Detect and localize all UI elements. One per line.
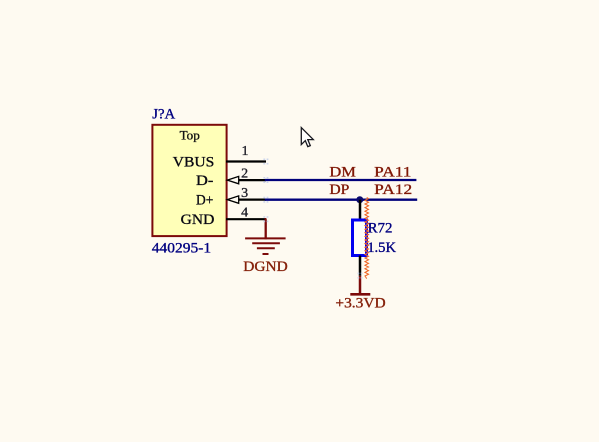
power port +3.3VD stem <box>359 276 362 295</box>
ground bar 1 <box>245 237 286 239</box>
ground bar 3 <box>257 247 275 249</box>
pin 2 stub <box>239 179 266 181</box>
pin 2 arrow <box>227 176 238 183</box>
svg-text:VBUS: VBUS <box>173 154 215 170</box>
svg-text:440295-1: 440295-1 <box>152 241 211 257</box>
hotspot marker resistor R72 pin 2 end <box>358 273 363 279</box>
svg-text:PA12: PA12 <box>374 182 412 198</box>
svg-text:Top: Top <box>180 128 200 143</box>
svg-text:GND: GND <box>181 212 215 228</box>
svg-text:D-: D- <box>196 173 213 189</box>
wire net DP <box>265 199 417 201</box>
ground bar 2 <box>252 242 280 244</box>
svg-text:R72: R72 <box>368 221 393 237</box>
pin 3 stub <box>239 199 266 201</box>
hotspot marker pin 1 end <box>263 159 268 165</box>
svg-text:PA11: PA11 <box>374 164 411 180</box>
pin 4 stub <box>226 218 266 220</box>
junction dot <box>356 196 363 203</box>
power port +3.3VD bar <box>350 293 370 296</box>
pin 1 stub <box>226 160 266 162</box>
pin 3 arrow <box>227 196 238 203</box>
wire net DM <box>265 179 417 181</box>
svg-text:J?A: J?A <box>152 107 175 123</box>
ground stem wire <box>265 219 268 239</box>
connector J?A body <box>152 125 226 236</box>
svg-text:DM: DM <box>329 164 356 180</box>
hotspot marker pin 3 end <box>263 197 268 203</box>
svg-text:DGND: DGND <box>243 259 288 275</box>
svg-text:1.5K: 1.5K <box>367 240 396 256</box>
hotspot marker pin 4 end <box>263 216 268 222</box>
error squiggle marker <box>365 197 369 278</box>
mouse cursor <box>301 128 313 147</box>
svg-text:1: 1 <box>242 144 249 159</box>
svg-text:+3.3VD: +3.3VD <box>335 296 385 312</box>
ground bar 4 <box>263 253 269 255</box>
resistor R72 top pin <box>359 200 362 220</box>
svg-text:D+: D+ <box>196 193 213 209</box>
hotspot marker pin 2 end <box>263 177 268 183</box>
svg-text:DP: DP <box>329 182 349 198</box>
resistor R72 body <box>353 220 367 256</box>
resistor R72 bottom pin <box>359 256 362 276</box>
